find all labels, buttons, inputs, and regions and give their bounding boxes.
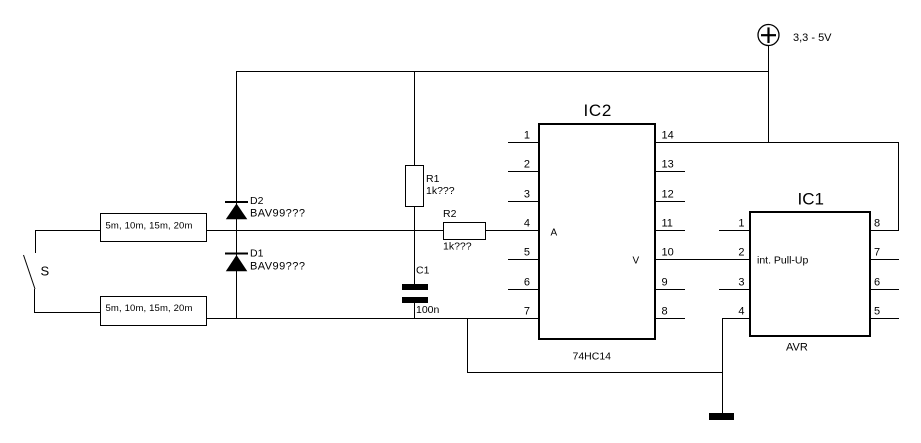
- svg-text:6: 6: [524, 277, 530, 289]
- svg-text:7: 7: [874, 247, 880, 259]
- svg-text:int. Pull-Up: int. Pull-Up: [757, 255, 809, 267]
- svg-text:IC1: IC1: [798, 190, 824, 209]
- svg-text:1: 1: [738, 218, 744, 230]
- svg-text:5: 5: [524, 247, 530, 259]
- svg-text:3: 3: [524, 189, 530, 201]
- svg-text:12: 12: [662, 189, 674, 201]
- svg-text:5m, 10m, 15m, 20m: 5m, 10m, 15m, 20m: [106, 221, 193, 232]
- svg-text:3,3 - 5V: 3,3 - 5V: [793, 32, 832, 44]
- svg-text:1k???: 1k???: [426, 185, 455, 197]
- svg-text:13: 13: [662, 159, 674, 171]
- svg-text:D2: D2: [250, 195, 264, 207]
- svg-text:AVR: AVR: [786, 342, 808, 354]
- svg-text:10: 10: [662, 247, 674, 259]
- svg-text:R2: R2: [443, 208, 457, 220]
- svg-text:14: 14: [662, 130, 674, 142]
- svg-text:74HC14: 74HC14: [573, 351, 612, 363]
- svg-text:BAV99???: BAV99???: [250, 261, 305, 273]
- svg-text:C1: C1: [416, 265, 430, 277]
- svg-text:4: 4: [738, 306, 744, 318]
- svg-text:8: 8: [662, 306, 668, 318]
- svg-text:3: 3: [738, 277, 744, 289]
- svg-text:5m, 10m, 15m, 20m: 5m, 10m, 15m, 20m: [106, 303, 193, 314]
- svg-text:4: 4: [524, 218, 530, 230]
- svg-text:S: S: [41, 264, 50, 279]
- svg-text:9: 9: [662, 277, 668, 289]
- svg-text:V: V: [633, 256, 640, 267]
- svg-text:1: 1: [524, 130, 530, 142]
- svg-text:1k???: 1k???: [443, 241, 472, 253]
- svg-text:BAV99???: BAV99???: [250, 208, 305, 220]
- svg-text:7: 7: [524, 306, 530, 318]
- svg-text:IC2: IC2: [584, 101, 613, 120]
- svg-text:5: 5: [874, 306, 880, 318]
- svg-text:11: 11: [662, 218, 673, 230]
- svg-text:6: 6: [874, 277, 880, 289]
- svg-text:D1: D1: [250, 248, 264, 260]
- svg-text:100n: 100n: [416, 304, 440, 316]
- svg-text:8: 8: [874, 218, 880, 230]
- svg-text:R1: R1: [426, 173, 440, 185]
- svg-text:2: 2: [738, 247, 744, 259]
- svg-text:A: A: [551, 228, 558, 239]
- svg-text:2: 2: [524, 159, 530, 171]
